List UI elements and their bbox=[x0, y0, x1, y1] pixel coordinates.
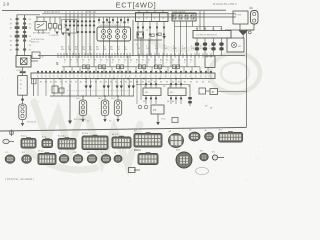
svg-text:E1: E1 bbox=[172, 82, 174, 84]
stub ticks bbox=[145, 83, 182, 99]
svg-text:E1: E1 bbox=[208, 82, 210, 84]
component box in riser zone bbox=[62, 20, 77, 34]
svg-text:W 060-06: W 060-06 bbox=[27, 122, 37, 124]
riser2 ticks bbox=[98, 19, 129, 21]
bus2 label band bbox=[64, 59, 193, 64]
distributor triangle bbox=[239, 30, 248, 35]
K1 stubs bbox=[146, 79, 156, 104]
main bus wire 2 bbox=[62, 66, 200, 68]
svg-text:1G: 1G bbox=[29, 36, 32, 38]
solenoid S2 bbox=[79, 100, 86, 116]
small box F5 bbox=[199, 88, 210, 94]
svg-text:SOLENOID RESISTOR: SOLENOID RESISTOR bbox=[196, 35, 218, 37]
svg-text:EC: EC bbox=[212, 152, 215, 154]
feed bus dots bbox=[82, 95, 119, 97]
riser header numbers bbox=[65, 12, 96, 14]
svg-text:L-R: L-R bbox=[155, 48, 159, 50]
svg-text:B-2022-35-2 B5-2: B-2022-35-2 B5-2 bbox=[213, 2, 237, 6]
svg-text:EFI MAIN RELAY: EFI MAIN RELAY bbox=[33, 31, 51, 34]
svg-text:E1: E1 bbox=[202, 82, 204, 84]
bus2 drops from bus1 bbox=[70, 56, 195, 67]
svg-text:IJ: IJ bbox=[114, 153, 116, 155]
PS ground wire bbox=[156, 114, 166, 125]
solenoid S3 bbox=[101, 100, 108, 116]
key probe connector bbox=[212, 152, 224, 160]
fuse box bbox=[172, 13, 196, 21]
bus2 junction pairs bbox=[82, 65, 179, 69]
junction block bbox=[136, 10, 169, 21]
wire left column 2 bbox=[24, 15, 26, 53]
svg-text:E1: E1 bbox=[100, 82, 102, 84]
meter drops bbox=[104, 41, 125, 56]
ECU pin separators bbox=[38, 73, 211, 78]
svg-text:5: 5 bbox=[56, 61, 59, 66]
resistor cluster bbox=[49, 17, 62, 32]
D2 drops to bus bbox=[175, 27, 187, 56]
svg-text:L-R: L-R bbox=[182, 48, 186, 50]
starter relay cluster bbox=[134, 32, 162, 56]
K2 stubs bbox=[171, 79, 181, 104]
distributor circle bbox=[248, 31, 251, 34]
box mid-right on bus1 bbox=[205, 56, 215, 68]
inline connectors column 2 bbox=[22, 18, 27, 51]
ground wire GA1 bbox=[68, 84, 86, 124]
svg-text:L-R: L-R bbox=[146, 48, 150, 50]
fusible link bbox=[251, 11, 259, 25]
extra ECU drop wires bbox=[38, 79, 124, 96]
svg-text:1G: 1G bbox=[29, 28, 32, 30]
svg-text:E02 (4A-FE): E02 (4A-FE) bbox=[74, 118, 86, 121]
svg-text:E1: E1 bbox=[142, 82, 144, 84]
relay box K1 bbox=[143, 88, 161, 96]
svg-text:E1: E1 bbox=[184, 82, 186, 84]
meter feed ticks bbox=[102, 22, 125, 24]
terminal pair wires bbox=[86, 79, 133, 96]
svg-text:1G: 1G bbox=[29, 23, 32, 25]
svg-text:COMBINATION METER: COMBINATION METER bbox=[99, 24, 122, 27]
svg-text:4k: 4k bbox=[64, 27, 66, 29]
ECU pin ticks above bbox=[37, 71, 212, 73]
svg-text:L-R: L-R bbox=[164, 48, 168, 50]
ECT ECU box bbox=[31, 73, 215, 79]
shielded dashed line bbox=[67, 90, 131, 92]
small circles under K1 bbox=[138, 105, 148, 109]
connector D9 bbox=[138, 154, 158, 165]
igniter box bbox=[227, 36, 244, 52]
combination meter box bbox=[97, 27, 131, 41]
solenoid resistor box bbox=[193, 31, 231, 39]
cluster dark marks bbox=[151, 33, 161, 37]
relay box K2 bbox=[168, 88, 186, 96]
ECU pin labels bbox=[37, 76, 212, 78]
pigtail connector bbox=[3, 139, 14, 143]
resistor feeds and drops bbox=[197, 27, 222, 56]
ignition wires bbox=[225, 24, 254, 128]
tall box above left solenoid bbox=[18, 71, 28, 105]
svg-text:E1: E1 bbox=[178, 82, 180, 84]
drops from bus2 to ECU bbox=[64, 67, 208, 73]
connector blobs bbox=[195, 43, 224, 51]
wire pair right of fuse box bbox=[199, 11, 201, 30]
faint round connector bbox=[196, 167, 209, 174]
top bus wire B bbox=[36, 16, 236, 18]
svg-text:2.0R W-B 15A: 2.0R W-B 15A bbox=[31, 38, 44, 41]
svg-text:EW01: EW01 bbox=[134, 149, 141, 152]
svg-text:L-R: L-R bbox=[137, 48, 141, 50]
junction block drops bbox=[138, 22, 164, 56]
svg-text:E1: E1 bbox=[40, 82, 42, 84]
svg-text:E1: E1 bbox=[80, 82, 82, 84]
svg-text:( FILM No. 4A-GE22 ): ( FILM No. 4A-GE22 ) bbox=[5, 177, 34, 181]
wire right of meter bbox=[132, 20, 134, 56]
svg-text:1G: 1G bbox=[29, 45, 32, 47]
svg-text:E1: E1 bbox=[160, 82, 162, 84]
resistor area labels bbox=[196, 29, 223, 31]
left column labels bbox=[10, 19, 32, 52]
wire top link to bus bbox=[17, 14, 40, 16]
riser bundle 2 bbox=[99, 17, 128, 24]
svg-text:L-R: L-R bbox=[209, 48, 213, 50]
small outline boxes left bbox=[52, 86, 64, 93]
svg-text:F 15A EFI: F 15A EFI bbox=[49, 34, 59, 37]
header rule bbox=[2, 9, 226, 11]
svg-text:PS: PS bbox=[153, 109, 157, 112]
svg-text:IG SW: IG SW bbox=[235, 14, 241, 16]
page background bbox=[0, 0, 267, 189]
top bus wire A bbox=[42, 13, 236, 15]
svg-text:E6 1-8: E6 1-8 bbox=[112, 134, 119, 136]
link wire to right vertical bbox=[218, 91, 247, 93]
wire left column 1 bbox=[16, 15, 18, 57]
inline connectors column 1 bbox=[15, 18, 20, 51]
bus1 label band right bbox=[137, 45, 213, 50]
svg-text:FUSE GAUGE: FUSE GAUGE bbox=[172, 10, 186, 13]
circuit opening relay bbox=[16, 52, 38, 71]
solenoid S1 bbox=[19, 104, 26, 120]
svg-text:E1: E1 bbox=[65, 82, 67, 84]
ECU bottom junction dots bbox=[59, 78, 193, 80]
box 57 left of bus bbox=[32, 52, 45, 59]
cluster top link wire bbox=[136, 84, 190, 86]
watermark ring bbox=[210, 53, 260, 93]
solenoid S4 bbox=[114, 100, 121, 116]
main bus wire 1 bbox=[38, 55, 245, 57]
svg-text:E1: E1 bbox=[75, 82, 77, 84]
EFI main relay bbox=[35, 17, 47, 34]
svg-text:E1: E1 bbox=[190, 82, 192, 84]
svg-text:ECT[4WD]: ECT[4WD] bbox=[116, 0, 157, 9]
scan noise speckle bbox=[2, 12, 262, 183]
svg-text:L-R: L-R bbox=[173, 48, 177, 50]
riser tick row 3 bbox=[77, 31, 95, 33]
svg-text:E1: E1 bbox=[148, 82, 150, 84]
riser wire bundle bbox=[66, 14, 94, 56]
junction drop ticks bbox=[137, 27, 165, 36]
svg-text:E1: E1 bbox=[125, 82, 127, 84]
svg-text:L-R: L-R bbox=[200, 48, 204, 50]
ignition switch box bbox=[233, 11, 248, 24]
left cluster wires bbox=[137, 79, 141, 104]
svg-text:E1: E1 bbox=[55, 82, 57, 84]
svg-text:4a: 4a bbox=[249, 6, 253, 10]
svg-text:IE 3-a: IE 3-a bbox=[38, 151, 44, 153]
svg-text:2-9: 2-9 bbox=[3, 2, 10, 7]
left ECU drop wire bbox=[33, 79, 35, 96]
connector D10 round bbox=[176, 148, 192, 168]
svg-text:E1: E1 bbox=[166, 82, 168, 84]
pattern select box bbox=[151, 105, 164, 114]
cluster small labels bbox=[136, 82, 213, 110]
B box bbox=[210, 89, 218, 95]
svg-text:1G: 1G bbox=[29, 19, 32, 21]
svg-text:1G: 1G bbox=[29, 49, 32, 51]
small corner box bbox=[129, 168, 136, 173]
terminal pairs below ECU bbox=[85, 86, 135, 89]
bus1 crossing ticks bbox=[58, 53, 211, 58]
svg-text:E1: E1 bbox=[105, 82, 107, 84]
svg-text:EC1 B: EC1 B bbox=[82, 133, 89, 135]
ground bolt symbol bbox=[10, 130, 13, 137]
fuse drops bbox=[175, 21, 223, 27]
flag box bbox=[172, 118, 178, 123]
svg-text:E1: E1 bbox=[50, 82, 52, 84]
diode arrows bbox=[56, 32, 71, 37]
svg-text:M: M bbox=[20, 84, 22, 86]
section divider line bbox=[0, 127, 246, 131]
svg-text:E1: E1 bbox=[70, 82, 72, 84]
svg-text:E1: E1 bbox=[130, 82, 132, 84]
vertical pair with blobs bbox=[188, 85, 192, 107]
sub-label ticks below ECU bbox=[40, 82, 210, 84]
bus1 label band left bbox=[61, 47, 129, 52]
svg-text:AM2 IG2: AM2 IG2 bbox=[31, 41, 40, 44]
svg-text:L-R: L-R bbox=[191, 48, 195, 50]
meter feeds bbox=[104, 17, 125, 27]
watermark letters bbox=[28, 40, 200, 170]
svg-text:B: B bbox=[212, 90, 214, 94]
small box on ECU left drop bbox=[32, 79, 37, 84]
riser ticks bbox=[65, 21, 95, 27]
solenoid feed bus bbox=[50, 95, 134, 97]
